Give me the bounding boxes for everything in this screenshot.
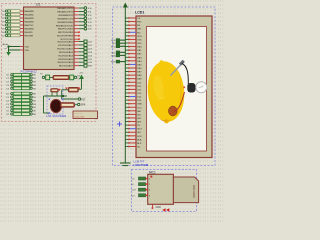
svg-text:DO: DO — [132, 195, 136, 197]
LCD pin D12 — [125, 89, 142, 92]
MCU right pin RD1/SDI2/AD1 — [58, 43, 93, 47]
MCU power pins AVDD/AVSS — [3, 43, 30, 52]
MMC pin DI — [132, 183, 152, 187]
MCU right pin RB5/AN13/T3CKI — [56, 24, 92, 27]
svg-text:RA2/AN2: RA2/AN2 — [25, 17, 35, 20]
LCD pin LED — [125, 42, 142, 45]
MCU right pin RD0/SCK2/AD0 — [57, 40, 92, 44]
MCU left pin RA5/AN4 with series resistor — [2, 27, 35, 30]
MCU right pin RD3/SS2/AD3 — [59, 50, 93, 54]
svg-text:RA0/AN0: RA0/AN0 — [25, 10, 35, 13]
LCD pin RST — [125, 21, 142, 24]
MCU right pin RD2/SDO2/AD2 — [57, 47, 93, 51]
bus ground symbol — [120, 163, 131, 166]
MMC card — [173, 177, 198, 203]
svg-text:MCLR/VPP/RE3: MCLR/VPP/RE3 — [57, 36, 74, 38]
LCD pin RD — [125, 32, 140, 35]
LCD pin DB4 — [125, 60, 142, 63]
bulb socket — [184, 83, 196, 93]
MCU left pin RA4/T0C with series resistor — [2, 24, 34, 27]
MCU left pin RE0/RD with series resistor — [2, 31, 33, 34]
svg-text:BLK: BLK — [137, 143, 142, 145]
selection tag-box around sounder — [47, 86, 63, 114]
resistor R1 reset pull-up — [66, 87, 82, 92]
svg-text:CS: CS — [132, 179, 136, 181]
LCD pin SDI — [125, 132, 141, 135]
MMC pin CLK — [132, 188, 152, 192]
resistor R2 — [61, 103, 78, 108]
LCD pin DB3 — [125, 57, 142, 60]
background sheet — [0, 0, 224, 224]
svg-text:SDO: SDO — [137, 129, 142, 131]
svg-text:GND: GND — [156, 206, 162, 209]
svg-text:RSD: RSD — [111, 62, 116, 64]
svg-text:www.n MI: www.n MI — [75, 116, 85, 118]
svg-text:LCM TTGM: LCM TTGM — [134, 163, 149, 167]
MCU left pin RA0/AN0 with series resistor — [2, 10, 35, 13]
svg-text:RD1/SDI2/AD1: RD1/SDI2/AD1 — [58, 44, 73, 47]
svg-text:RST: RST — [137, 22, 142, 24]
svg-text:VDD: VDD — [25, 47, 30, 49]
LCD pin VSS — [125, 39, 142, 42]
terminal SPK — [78, 103, 86, 106]
origin marker blue cross — [117, 122, 122, 127]
svg-text:RD: RD — [137, 32, 141, 34]
LCD pin SDO — [125, 128, 142, 131]
svg-text:SDA: SDA — [111, 54, 116, 57]
MCU right pin RD6/SCK1/AD6 — [57, 61, 92, 64]
connector pair J1-4 — [6, 87, 37, 90]
connector pair J2-4 — [6, 106, 37, 109]
svg-text:RA1/AN1: RA1/AN1 — [25, 14, 35, 17]
svg-text:RD0/SCK2/AD0: RD0/SCK2/AD0 — [57, 41, 73, 44]
svg-text:SCK: SCK — [137, 136, 142, 138]
LCD pin NC — [125, 146, 140, 149]
svg-text:SDI: SDI — [137, 132, 141, 134]
net terminal SDO — [111, 45, 125, 48]
push button — [51, 89, 61, 96]
connector pair J1-0 — [6, 73, 37, 76]
connector pair J1-1 — [6, 77, 37, 80]
lemon battery bitmap on screen : lemon body — [145, 60, 187, 124]
svg-text:RS: RS — [137, 25, 141, 27]
black wire lemon to bulb — [182, 64, 188, 85]
svg-text:CLK: CLK — [132, 190, 137, 192]
svg-text:LED: LED — [137, 43, 142, 45]
svg-text:RD6/SCK1/AD6: RD6/SCK1/AD6 — [57, 61, 73, 64]
LCD pin D10 — [125, 82, 142, 85]
connector pair J2-1 — [6, 96, 37, 99]
MCU right pin RB2/AN8/INT2 — [59, 14, 93, 17]
MCU right pin RD4/SDO/AD4 — [58, 54, 92, 58]
svg-text:RB5/AN13/T3CKI: RB5/AN13/T3CKI — [56, 24, 74, 27]
connector pair J2-6 — [6, 113, 37, 116]
LCD body — [136, 16, 212, 158]
svg-text:RB1/AN10/INT1: RB1/AN10/INT1 — [57, 10, 73, 13]
svg-text:RB6/PGC/KBI2: RB6/PGC/KBI2 — [58, 29, 74, 31]
connector pair J2-5 — [6, 109, 37, 112]
svg-text:RD5/SDI1/AD5: RD5/SDI1/AD5 — [58, 58, 73, 61]
selection tag-box around MCU sub-circuit — [2, 4, 97, 122]
LCD screen bezel — [147, 27, 207, 152]
svg-text:RD4/SDO/AD4: RD4/SDO/AD4 — [58, 54, 73, 57]
svg-text:VSS: VSS — [25, 50, 30, 52]
rotation marker arrows — [162, 208, 169, 212]
svg-text:U1: U1 — [36, 3, 40, 7]
MCU right pin RB0/AN12/INT0 — [57, 7, 92, 10]
net terminal SDI — [112, 42, 125, 45]
MCU left pin RA3/AN3 with series resistor — [2, 20, 35, 23]
LCD pin SCK — [125, 135, 142, 138]
svg-text:NC: NC — [137, 147, 141, 149]
LCD pin IM2 — [125, 117, 141, 120]
LCD pin DB8 — [125, 74, 142, 77]
copper electrode — [168, 106, 177, 116]
svg-text:+5V: +5V — [79, 73, 83, 75]
svg-text:RD7/SS1/AD7: RD7/SS1/AD7 — [59, 65, 74, 68]
LCD pin IM0 — [125, 110, 141, 113]
net terminal RSD — [111, 60, 125, 63]
MMC socket body — [148, 174, 174, 204]
svg-text:RB2/AN8/INT2: RB2/AN8/INT2 — [59, 14, 74, 17]
svg-text:MMC 64MB: MMC 64MB — [192, 185, 195, 198]
svg-text:RB0/AN12/INT0: RB0/AN12/INT0 — [57, 7, 73, 10]
bulb glass — [196, 82, 207, 93]
wire node row — [44, 95, 67, 113]
LCD pin DB5 — [125, 64, 142, 67]
MMC pin 1 marker — [150, 176, 152, 178]
svg-text:LS1 SOUNDER: LS1 SOUNDER — [47, 114, 67, 118]
LCD pin VDD — [125, 35, 142, 38]
MCU right pin RB3/AN9/CCP2 — [57, 17, 92, 20]
text script label box — [73, 111, 98, 119]
LCD pin D15 — [125, 99, 142, 102]
svg-text:RST: RST — [88, 66, 93, 68]
MCU right pin MCLR/VPP/RE3 — [57, 35, 80, 38]
svg-text:BLA: BLA — [137, 138, 142, 141]
ground arrow — [6, 47, 11, 56]
LCD pin IM1 — [125, 114, 141, 117]
LCD pin BLA — [125, 138, 142, 141]
svg-text:SCK: SCK — [111, 40, 116, 42]
net terminal SCK — [111, 39, 125, 42]
svg-text:RE0/RD: RE0/RD — [25, 32, 33, 34]
zinc nail electrode — [171, 60, 185, 76]
connector pair J2-0 — [6, 92, 37, 95]
svg-text:CS: CS — [137, 18, 141, 20]
connector pair J2-2 — [6, 99, 37, 102]
MCU right pin RD7/SS1/AD7 — [59, 64, 93, 68]
MCU right pin RB1/AN10/INT1 — [57, 10, 92, 13]
svg-text:SDI: SDI — [112, 43, 116, 45]
MCU right pin RD5/SDI1/AD5 — [58, 57, 93, 61]
MCU right pin RC0/T1OSO — [61, 38, 80, 41]
MCU left pin RA1/AN1 with series resistor — [2, 13, 35, 16]
selection tag-box around LCD sub-circuit — [113, 7, 216, 166]
MCU left pin RA2/AN2 with series resistor — [2, 17, 35, 20]
svg-text:RB7/PGD/KBI3: RB7/PGD/KBI3 — [58, 32, 74, 34]
LCD pin GND — [125, 103, 142, 106]
svg-text:RST: RST — [81, 98, 86, 101]
svg-text:RA4/T0C: RA4/T0C — [25, 24, 34, 27]
LCD pin DB9 — [125, 78, 142, 81]
bus power arrow — [123, 3, 128, 8]
LCD pin DB0 — [125, 46, 142, 49]
svg-text:WR: WR — [137, 29, 141, 31]
MCU right pin RB6/PGC/KBI2 — [58, 27, 92, 30]
sounder LS1 — [49, 99, 63, 114]
LCD pin D13 — [125, 92, 142, 95]
red wire lemon to bulb — [174, 92, 185, 112]
svg-text:RE1/WR: RE1/WR — [25, 36, 34, 38]
svg-text:VDD: VDD — [137, 36, 142, 38]
svg-text:--- -- ----: --- -- ---- — [75, 113, 83, 115]
connector pair J1-3 — [6, 84, 37, 87]
svg-text:RB4/AN11/KBI0: RB4/AN11/KBI0 — [57, 21, 73, 24]
svg-text:LCD1: LCD1 — [135, 11, 144, 15]
net terminal SDA — [111, 54, 125, 57]
svg-text:RB3/AN9/CCP2: RB3/AN9/CCP2 — [57, 17, 73, 20]
selection tag-box around MMC — [132, 170, 197, 212]
MMC bottom pin GND — [152, 204, 161, 209]
connector pair J2-3 — [6, 103, 37, 106]
VCC power arrow — [79, 73, 84, 90]
svg-text:VCC: VCC — [137, 107, 142, 109]
LCD pin WR — [125, 28, 141, 31]
LCD pin VCC — [125, 107, 142, 110]
LCD pin DB6 — [125, 67, 142, 70]
svg-text:VSS: VSS — [137, 39, 142, 41]
svg-text:SDO: SDO — [111, 46, 116, 48]
LCD pin BLK — [125, 142, 142, 145]
LCD pin CS — [125, 17, 140, 20]
MCU right pin RB7/PGD/KBI3 — [58, 31, 80, 34]
wire R1 to RST terminal — [62, 90, 78, 99]
LCD pin DB2 — [125, 53, 142, 56]
MMC pin DO — [132, 194, 152, 198]
LCD pin D11 — [125, 85, 142, 88]
LCD pin RS — [125, 24, 140, 27]
svg-text:RD3/SS2/AD3: RD3/SS2/AD3 — [59, 51, 74, 54]
LCD pin TE — [125, 124, 140, 127]
connector pair J1-2 — [6, 80, 37, 83]
MCU right pin RB4/AN11/KBI0 — [57, 21, 92, 24]
LCD pin IM3 — [125, 121, 141, 124]
terminal RST — [78, 98, 86, 102]
svg-text:RA5/AN4: RA5/AN4 — [25, 28, 35, 31]
MMC pin CS — [132, 177, 152, 181]
MCU U1 body — [24, 7, 75, 70]
MCU left pin RE1/WR with series resistor — [2, 34, 34, 37]
svg-text:SPK: SPK — [81, 104, 86, 107]
LCD power bus vertical wire — [124, 8, 126, 163]
resistor R3 row with terminals (TX/RX) — [40, 74, 81, 81]
LCD pin DB1 — [125, 49, 142, 52]
svg-text:RD2/SDO2/AD2: RD2/SDO2/AD2 — [57, 47, 74, 50]
svg-text:GND: GND — [137, 104, 142, 106]
net terminal SCL — [111, 51, 125, 54]
svg-text:RA3/AN3: RA3/AN3 — [25, 21, 35, 24]
LCD pin DB7 — [125, 71, 142, 74]
LCD pin D14 — [125, 96, 142, 99]
